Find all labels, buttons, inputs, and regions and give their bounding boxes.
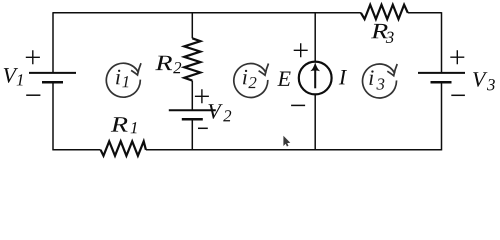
- wire middle branch mid: R2 bottom to V2 plate: [191, 81, 193, 111]
- battery V2 minus sign: [198, 127, 208, 129]
- battery V1 label: [4, 68, 18, 83]
- battery V2 short plate: [182, 118, 203, 121]
- wire source branch upper: top wire to current source circle: [314, 13, 316, 62]
- current source label I: [339, 70, 347, 84]
- mouse cursor: [283, 136, 290, 147]
- battery V3 plus sign: [450, 50, 464, 64]
- current source circle: [299, 62, 332, 95]
- loop label i3: [369, 70, 373, 85]
- battery V2 plus sign: [195, 89, 209, 103]
- wire top right: R3 right lead to top-right corner: [408, 12, 442, 14]
- battery V3 label: [473, 72, 487, 87]
- wire bottom left: corner to R1 left lead: [53, 149, 101, 151]
- current source plus sign: [294, 43, 308, 57]
- battery V3 minus sign: [451, 94, 465, 96]
- wire source branch lower: current source circle to bottom wire: [314, 94, 316, 149]
- battery V3 long plate: [418, 72, 465, 74]
- battery V1 short plate: [42, 81, 63, 84]
- loop label i1: [116, 70, 120, 85]
- wire bottom: R1 right lead to bottom-right corner: [146, 149, 442, 151]
- battery V2 long plate: [169, 109, 216, 111]
- resistor R1 label: [111, 117, 128, 131]
- battery V2 label: [208, 104, 222, 119]
- battery V1 long plate: [29, 72, 76, 74]
- loop arrow i1: [106, 63, 141, 97]
- wire top: left corner to R3 left lead: [53, 12, 361, 14]
- wire left branch upper: corner down to V1 plate: [52, 12, 54, 73]
- resistor R3 zigzag: [361, 5, 408, 19]
- wire right branch lower: V3 short plate to bottom-right corner: [441, 82, 443, 150]
- loop label i2: [243, 70, 247, 85]
- resistor R2 zigzag: [184, 38, 200, 80]
- wire left branch lower: V1 short plate to bottom-left corner: [52, 82, 54, 150]
- resistor R3 label: [371, 24, 388, 38]
- wire right branch upper: top-right corner down to V3 plate: [441, 12, 443, 73]
- current source arrow head: [310, 62, 320, 71]
- battery V1 plus sign: [26, 50, 40, 64]
- current source label E: [277, 71, 290, 85]
- battery V3 short plate: [431, 81, 452, 84]
- loop arrow i2: [234, 64, 269, 98]
- current source minus sign: [291, 104, 305, 106]
- battery V1 minus sign: [26, 94, 40, 96]
- wire middle branch lower: V2 short plate to bottom wire: [191, 119, 193, 150]
- loop arrow i3: [363, 64, 398, 98]
- wire middle branch upper: top wire to R2: [191, 13, 193, 39]
- resistor R1 zigzag: [101, 141, 146, 156]
- resistor R2 label: [155, 56, 172, 70]
- current source arrow shaft: [314, 70, 316, 89]
